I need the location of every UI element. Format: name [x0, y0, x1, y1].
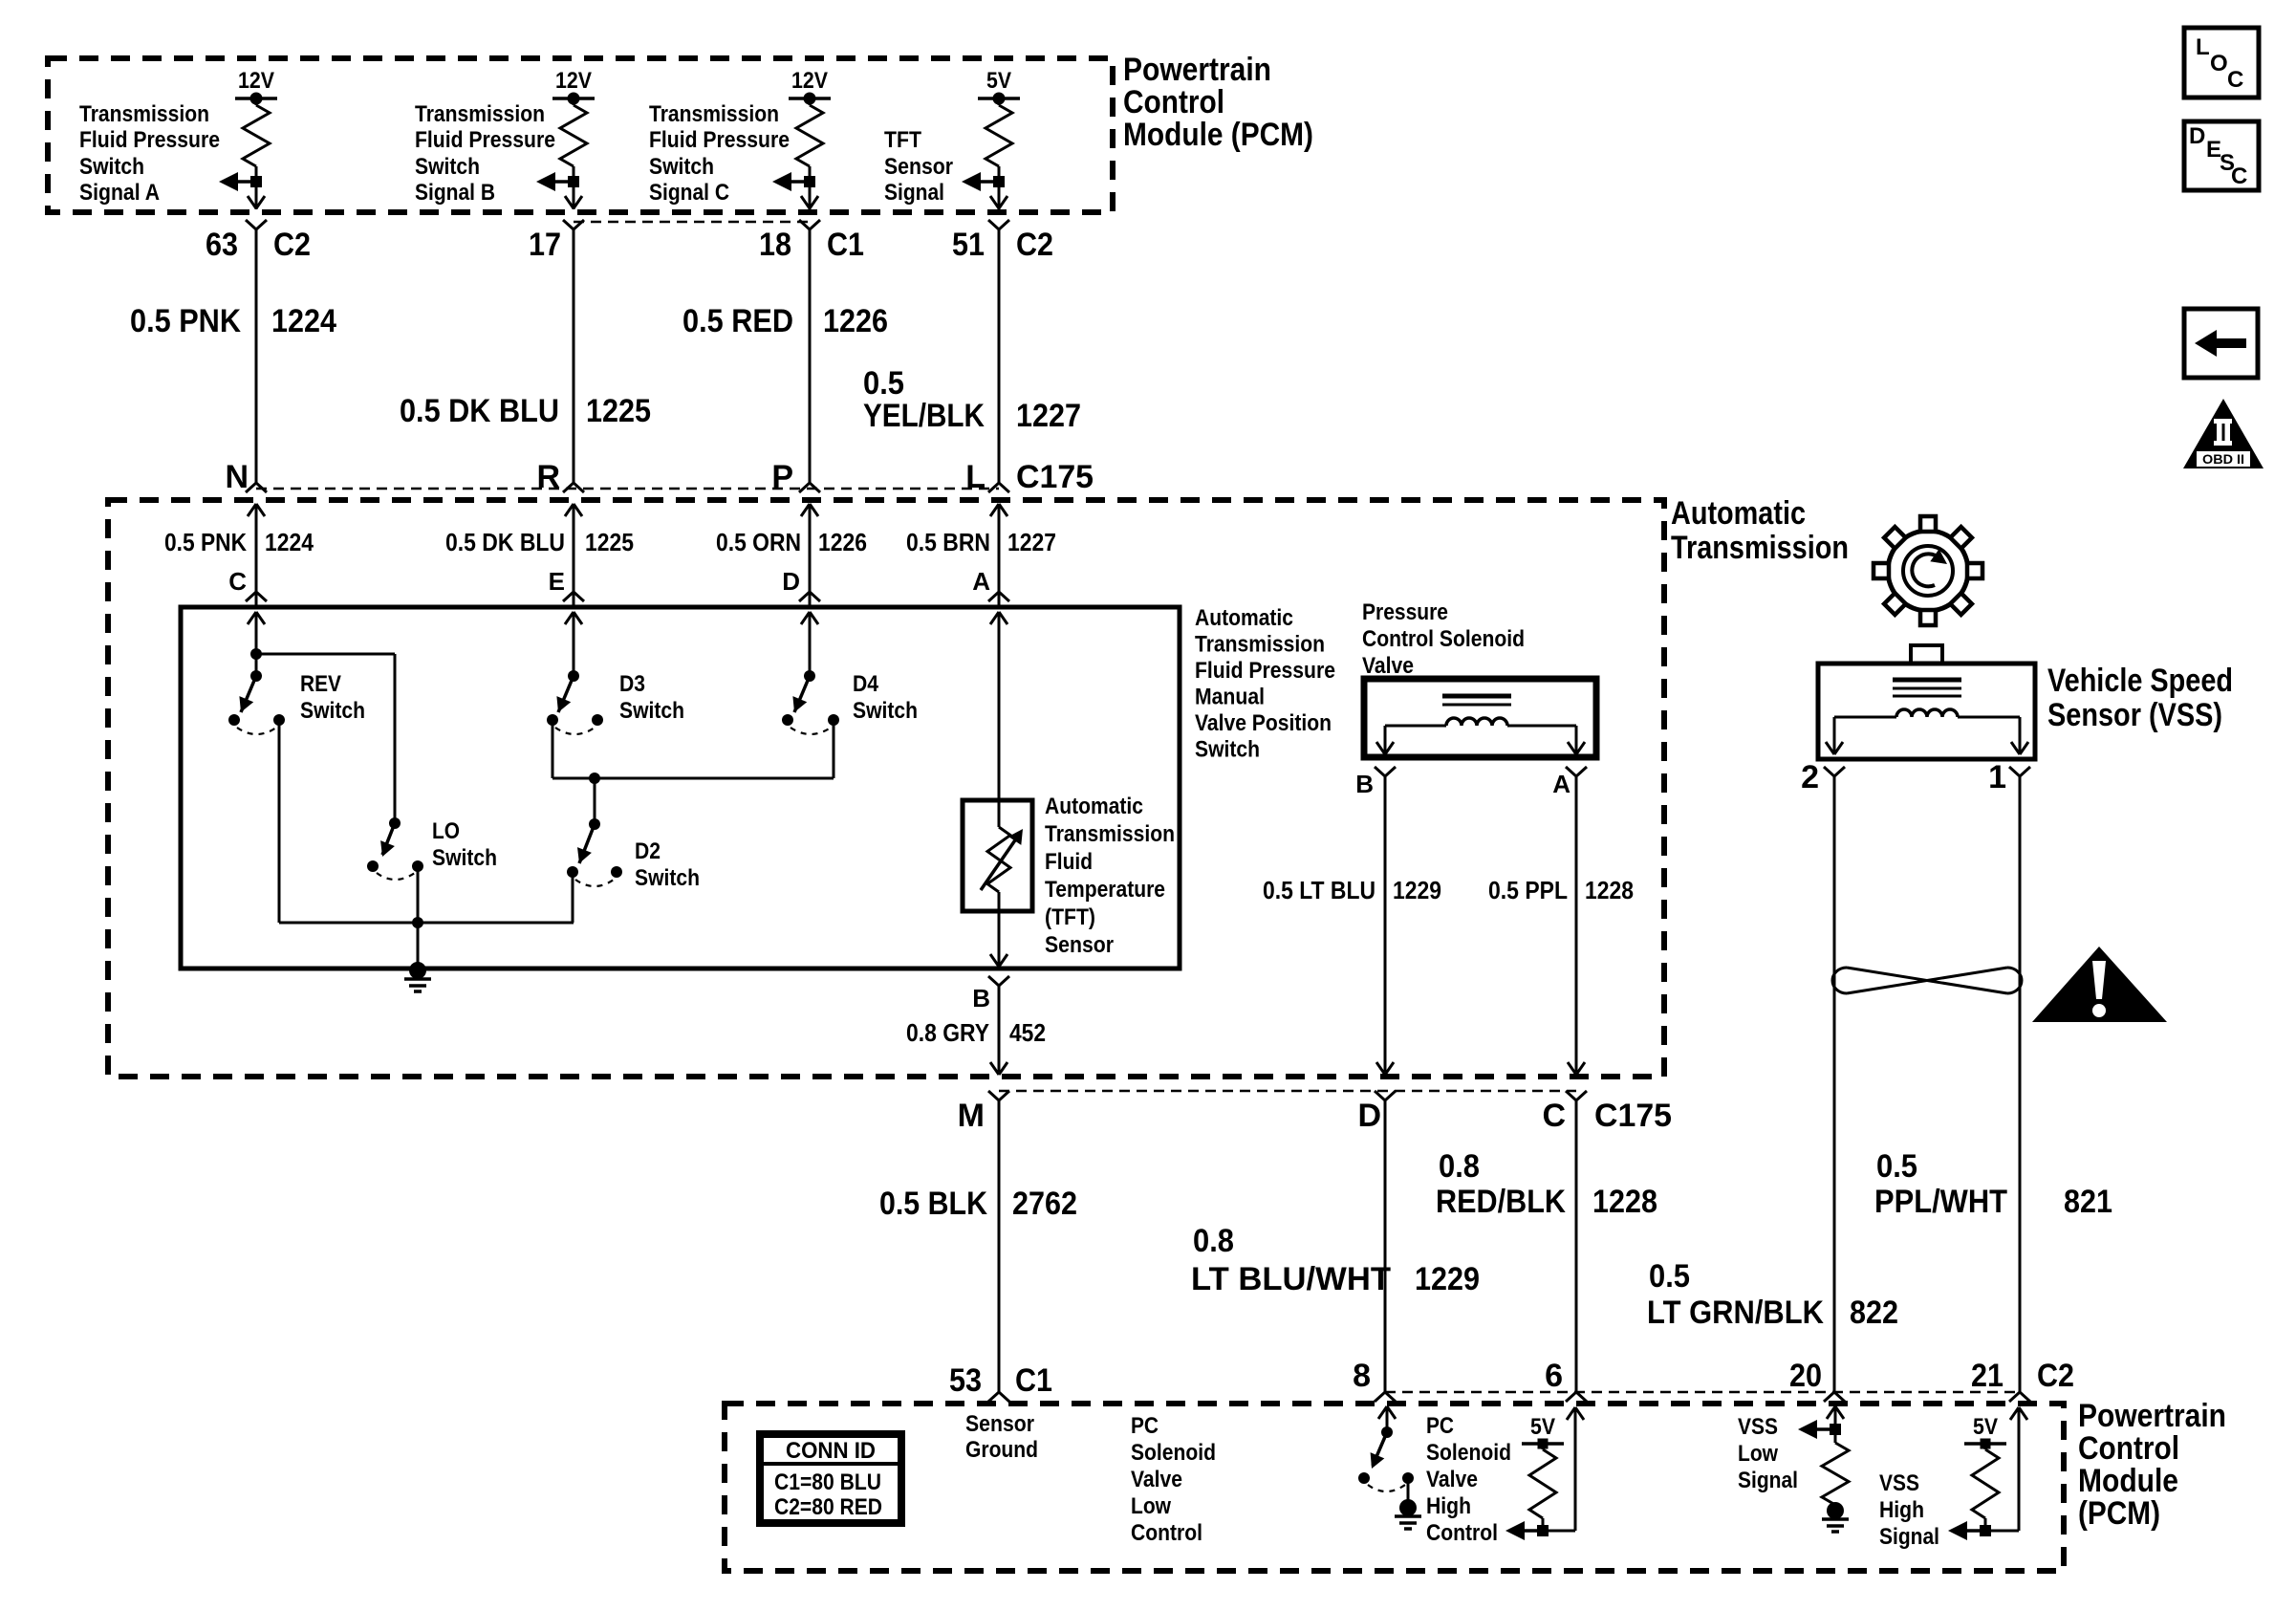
svg-text:(TFT): (TFT)	[1045, 904, 1095, 930]
svg-text:P: P	[771, 459, 793, 495]
svg-text:0.8: 0.8	[1193, 1223, 1234, 1259]
svg-text:LT BLU/WHT: LT BLU/WHT	[1191, 1261, 1391, 1297]
svg-text:C: C	[2231, 163, 2247, 189]
svg-text:17: 17	[529, 227, 561, 263]
svg-text:Transmission: Transmission	[1195, 632, 1325, 658]
svg-text:822: 822	[1850, 1295, 1898, 1331]
svg-text:D: D	[782, 567, 800, 596]
svg-text:0.8 GRY: 0.8 GRY	[906, 1018, 989, 1047]
svg-text:6: 6	[1545, 1358, 1563, 1394]
svg-text:Fluid Pressure: Fluid Pressure	[415, 127, 555, 153]
svg-text:Control: Control	[1123, 84, 1224, 120]
svg-text:C2: C2	[273, 227, 311, 263]
svg-text:C: C	[1542, 1098, 1566, 1134]
svg-text:Signal C: Signal C	[649, 180, 729, 206]
svg-text:1225: 1225	[586, 393, 651, 429]
svg-text:Sensor: Sensor	[884, 154, 953, 180]
svg-text:452: 452	[1009, 1018, 1046, 1047]
svg-text:0.5 PNK: 0.5 PNK	[130, 303, 241, 339]
svg-text:Powertrain: Powertrain	[1123, 52, 1271, 88]
svg-text:C1: C1	[827, 227, 864, 263]
svg-text:1226: 1226	[818, 528, 867, 556]
svg-text:Module: Module	[2078, 1463, 2178, 1499]
svg-text:Signal B: Signal B	[415, 180, 495, 206]
svg-text:C175: C175	[1594, 1098, 1672, 1134]
svg-text:D3: D3	[619, 671, 645, 697]
svg-text:1229: 1229	[1393, 876, 1441, 904]
svg-text:REV: REV	[300, 671, 341, 697]
svg-text:0.5: 0.5	[1649, 1258, 1690, 1295]
svg-text:5V: 5V	[1530, 1414, 1555, 1440]
svg-text:0.5: 0.5	[1876, 1148, 1917, 1185]
svg-text:C2=80 RED: C2=80 RED	[774, 1494, 882, 1520]
svg-text:Automatic: Automatic	[1195, 605, 1293, 631]
svg-text:5V: 5V	[1973, 1414, 1998, 1440]
svg-text:PC: PC	[1131, 1413, 1159, 1439]
svg-text:Valve Position: Valve Position	[1195, 710, 1332, 736]
svg-text:51: 51	[952, 227, 985, 263]
svg-text:1227: 1227	[1007, 528, 1056, 556]
svg-text:D4: D4	[853, 671, 879, 697]
svg-text:63: 63	[206, 227, 238, 263]
svg-text:Solenoid: Solenoid	[1131, 1440, 1216, 1466]
svg-text:C1: C1	[1015, 1362, 1052, 1399]
svg-text:0.5 LT BLU: 0.5 LT BLU	[1263, 876, 1375, 904]
svg-text:L: L	[2196, 34, 2210, 60]
svg-text:Fluid: Fluid	[1045, 849, 1093, 875]
svg-text:Temperature: Temperature	[1045, 877, 1165, 903]
svg-text:8: 8	[1353, 1358, 1371, 1394]
svg-text:Control: Control	[1426, 1520, 1498, 1546]
svg-text:Switch: Switch	[635, 865, 700, 891]
svg-text:0.5: 0.5	[863, 365, 904, 402]
svg-text:1225: 1225	[585, 528, 634, 556]
svg-text:1224: 1224	[271, 303, 336, 339]
svg-text:Fluid Pressure: Fluid Pressure	[79, 127, 220, 153]
svg-text:Transmission: Transmission	[649, 101, 779, 127]
svg-text:PC: PC	[1426, 1413, 1454, 1439]
svg-text:Valve: Valve	[1131, 1467, 1182, 1492]
svg-text:12V: 12V	[238, 68, 274, 94]
svg-text:0.5 RED: 0.5 RED	[682, 303, 793, 339]
svg-text:PPL/WHT: PPL/WHT	[1874, 1184, 2007, 1220]
svg-text:0.5 PNK: 0.5 PNK	[164, 528, 247, 556]
svg-text:Signal: Signal	[884, 180, 944, 206]
svg-text:821: 821	[2064, 1184, 2112, 1220]
svg-text:Switch: Switch	[415, 154, 480, 180]
svg-text:R: R	[536, 459, 560, 495]
svg-text:Switch: Switch	[300, 698, 365, 724]
svg-text:0.5 BRN: 0.5 BRN	[906, 528, 990, 556]
svg-text:Valve: Valve	[1426, 1467, 1478, 1492]
svg-text:C: C	[2227, 67, 2243, 93]
svg-text:0.5 DK BLU: 0.5 DK BLU	[445, 528, 565, 556]
svg-text:C2: C2	[2037, 1358, 2074, 1394]
svg-text:Transmission: Transmission	[1045, 821, 1175, 847]
svg-text:A: A	[1552, 770, 1570, 798]
svg-text:Vehicle Speed: Vehicle Speed	[2047, 663, 2233, 699]
svg-text:12V: 12V	[555, 68, 592, 94]
svg-text:(PCM): (PCM)	[2078, 1495, 2160, 1532]
svg-text:1228: 1228	[1585, 876, 1634, 904]
svg-text:D2: D2	[635, 838, 661, 864]
svg-text:VSS: VSS	[1879, 1470, 1919, 1496]
svg-text:Control: Control	[1131, 1520, 1202, 1546]
svg-text:Solenoid: Solenoid	[1426, 1440, 1511, 1466]
svg-text:RED/BLK: RED/BLK	[1436, 1184, 1566, 1220]
svg-text:Signal A: Signal A	[79, 180, 160, 206]
svg-text:12V: 12V	[791, 68, 828, 94]
svg-text:C175: C175	[1016, 459, 1094, 495]
svg-text:Signal: Signal	[1738, 1468, 1798, 1493]
svg-text:Module (PCM): Module (PCM)	[1123, 117, 1313, 153]
svg-text:C: C	[228, 567, 247, 596]
svg-text:TFT: TFT	[884, 127, 921, 153]
svg-text:Ground: Ground	[965, 1437, 1038, 1463]
svg-text:LT GRN/BLK: LT GRN/BLK	[1647, 1295, 1824, 1331]
svg-text:Switch: Switch	[1195, 737, 1260, 763]
svg-text:20: 20	[1789, 1358, 1822, 1394]
svg-text:Transmission: Transmission	[415, 101, 545, 127]
svg-text:0.8: 0.8	[1439, 1148, 1480, 1185]
svg-text:Transmission: Transmission	[79, 101, 209, 127]
svg-text:Sensor: Sensor	[1045, 932, 1114, 958]
svg-text:D: D	[2189, 123, 2205, 149]
svg-text:O: O	[2210, 51, 2228, 76]
svg-text:18: 18	[759, 227, 791, 263]
svg-text:1: 1	[1988, 759, 2006, 795]
svg-text:L: L	[965, 459, 986, 495]
svg-text:OBD II: OBD II	[2202, 451, 2244, 467]
svg-text:Valve: Valve	[1362, 653, 1414, 679]
svg-text:1228: 1228	[1592, 1184, 1657, 1220]
svg-text:0.5 BLK: 0.5 BLK	[879, 1186, 987, 1222]
svg-text:Control: Control	[2078, 1430, 2179, 1467]
svg-text:Switch: Switch	[432, 845, 497, 871]
svg-text:C2: C2	[1016, 227, 1053, 263]
svg-text:Low: Low	[1738, 1441, 1778, 1467]
svg-text:Automatic: Automatic	[1671, 495, 1806, 532]
svg-text:2762: 2762	[1012, 1186, 1077, 1222]
svg-text:LO: LO	[432, 818, 460, 844]
svg-text:Low: Low	[1131, 1493, 1171, 1519]
svg-text:2: 2	[1801, 759, 1819, 795]
svg-text:Automatic: Automatic	[1045, 794, 1143, 819]
svg-text:0.5 PPL: 0.5 PPL	[1488, 876, 1568, 904]
svg-text:E: E	[549, 567, 565, 596]
svg-text:A: A	[972, 567, 990, 596]
svg-text:1226: 1226	[823, 303, 888, 339]
svg-text:Transmission: Transmission	[1671, 530, 1849, 566]
svg-text:Pressure: Pressure	[1362, 599, 1448, 625]
svg-text:Fluid Pressure: Fluid Pressure	[649, 127, 790, 153]
svg-text:D: D	[1357, 1098, 1381, 1134]
svg-text:C1=80 BLU: C1=80 BLU	[774, 1469, 881, 1495]
svg-text:1229: 1229	[1415, 1261, 1480, 1297]
svg-text:Control Solenoid: Control Solenoid	[1362, 626, 1525, 652]
svg-text:M: M	[958, 1098, 985, 1134]
svg-text:1224: 1224	[265, 528, 314, 556]
svg-text:CONN ID: CONN ID	[786, 1438, 876, 1464]
svg-text:N: N	[225, 459, 249, 495]
svg-text:5V: 5V	[986, 68, 1011, 94]
svg-text:VSS: VSS	[1738, 1414, 1778, 1440]
svg-text:Sensor (VSS): Sensor (VSS)	[2047, 697, 2222, 733]
svg-text:0.5 ORN: 0.5 ORN	[716, 528, 801, 556]
svg-text:Switch: Switch	[649, 154, 714, 180]
svg-text:0.5 DK BLU: 0.5 DK BLU	[400, 393, 559, 429]
svg-text:53: 53	[949, 1362, 982, 1399]
svg-text:B: B	[972, 984, 990, 1012]
svg-text:Signal: Signal	[1879, 1524, 1939, 1550]
svg-text:High: High	[1879, 1497, 1924, 1523]
svg-text:Sensor: Sensor	[965, 1411, 1034, 1437]
svg-text:YEL/BLK: YEL/BLK	[863, 398, 985, 434]
svg-text:21: 21	[1971, 1358, 2004, 1394]
svg-text:B: B	[1355, 770, 1374, 798]
svg-text:Manual: Manual	[1195, 685, 1265, 710]
svg-text:Switch: Switch	[853, 698, 918, 724]
svg-text:High: High	[1426, 1493, 1471, 1519]
svg-text:Fluid Pressure: Fluid Pressure	[1195, 658, 1335, 684]
svg-text:1227: 1227	[1016, 398, 1081, 434]
svg-text:Switch: Switch	[619, 698, 684, 724]
svg-text:Powertrain: Powertrain	[2078, 1398, 2226, 1434]
svg-text:Switch: Switch	[79, 154, 144, 180]
